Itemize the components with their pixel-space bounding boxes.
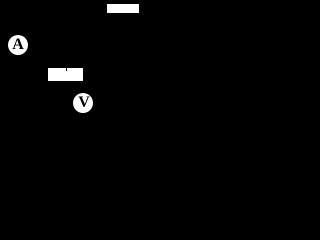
- voltmeter V label: [74, 93, 94, 113]
- voltmeter V: [73, 93, 93, 113]
- ammeter A: [8, 35, 28, 55]
- wire notch on resistor R2 top edge: [66, 68, 68, 71]
- resistor R1 (filled white bar, top right): [107, 4, 139, 13]
- ammeter A label: [8, 35, 28, 55]
- resistor R2 (filled white box, center): [48, 68, 83, 81]
